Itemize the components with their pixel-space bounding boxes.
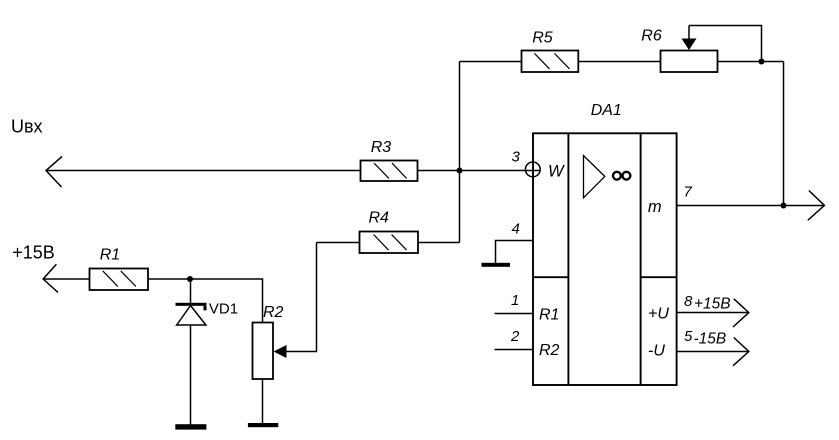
wire VD1 anode lead (190, 325, 192, 425)
potentiometer R2 (253, 323, 274, 380)
svg-text:W: W (548, 162, 565, 180)
resistor R4 (360, 232, 419, 254)
wire R3 to pin 3 circle (418, 170, 540, 172)
wire R6 to feedback corner (718, 61, 784, 63)
wire to R5 (460, 61, 522, 63)
node output junction (781, 203, 787, 209)
wire feedback vertical branch (459, 62, 461, 243)
svg-text:VD1: VD1 (209, 301, 238, 318)
node junction input-feedback (457, 168, 463, 174)
wire +15V to R1 (43, 278, 89, 280)
op-amp U DA1 body (533, 133, 677, 385)
pin 7 wire output (677, 205, 825, 207)
op-amp infinity gain symbol (613, 172, 630, 180)
svg-text:5: 5 (684, 328, 693, 345)
svg-text:2: 2 (510, 328, 520, 345)
pin 5 arrow (733, 338, 749, 366)
pin 8 wire (677, 312, 749, 314)
svg-text:R2: R2 (263, 304, 284, 321)
resistor R3 (361, 161, 418, 182)
wire feedback down to output (783, 62, 785, 206)
wire R4 left lead (317, 242, 360, 244)
svg-text:R1: R1 (100, 247, 120, 264)
wire R2 wiper to R4 (286, 243, 317, 352)
svg-text:8: 8 (684, 293, 693, 310)
wire VD1 cathode lead (190, 279, 192, 303)
svg-text:DA1: DA1 (591, 102, 622, 119)
wire R1 to R2 top (148, 279, 263, 323)
potentiometer R6 (661, 51, 718, 73)
+15V arrow (43, 264, 58, 292)
zener diode VD1 (176, 303, 207, 325)
R6 wiper arrow (682, 26, 697, 51)
pin 3 inversion circle (525, 162, 540, 177)
pin 2 wire (495, 349, 533, 351)
svg-text:+15В: +15В (694, 296, 731, 313)
wire R4 right lead (418, 242, 460, 244)
resistor R1 (90, 269, 149, 291)
node junction VD1 (187, 276, 193, 282)
output arrow (808, 191, 825, 221)
svg-text:4: 4 (512, 221, 520, 238)
svg-text:+U: +U (648, 306, 669, 323)
svg-text:Uвх: Uвх (11, 117, 43, 137)
ground R2 (248, 423, 278, 427)
svg-text:m: m (648, 198, 662, 216)
op-amp triangle (584, 156, 605, 198)
pin 1 wire (495, 313, 533, 315)
svg-text:-U: -U (648, 342, 665, 359)
svg-text:1: 1 (511, 292, 519, 309)
svg-text:+15В: +15В (12, 243, 55, 263)
svg-text:R6: R6 (641, 28, 662, 45)
resistor R5 (522, 51, 579, 73)
wire R2 bottom lead (262, 379, 264, 423)
pin 8 arrow (733, 299, 749, 327)
wire R5 to R6 (578, 61, 660, 63)
svg-text:3: 3 (512, 149, 521, 166)
svg-text:7: 7 (684, 184, 693, 201)
svg-text:R1: R1 (539, 307, 559, 324)
wire R6 wiper loop (689, 26, 762, 62)
node junction R6 wiper (759, 59, 765, 65)
input arrow (46, 157, 62, 188)
ground pin 4 (482, 263, 511, 267)
svg-text:-15В: -15В (694, 331, 727, 348)
R2 wiper arrow (274, 345, 287, 358)
svg-text:R3: R3 (371, 139, 392, 156)
pin 5 wire (677, 351, 749, 353)
svg-text:R4: R4 (369, 209, 390, 226)
pin 4 wire (496, 241, 533, 263)
svg-text:R2: R2 (539, 342, 560, 359)
ground VD1 (175, 424, 206, 429)
svg-text:R5: R5 (532, 30, 553, 47)
wire input line to R3 (46, 170, 361, 172)
